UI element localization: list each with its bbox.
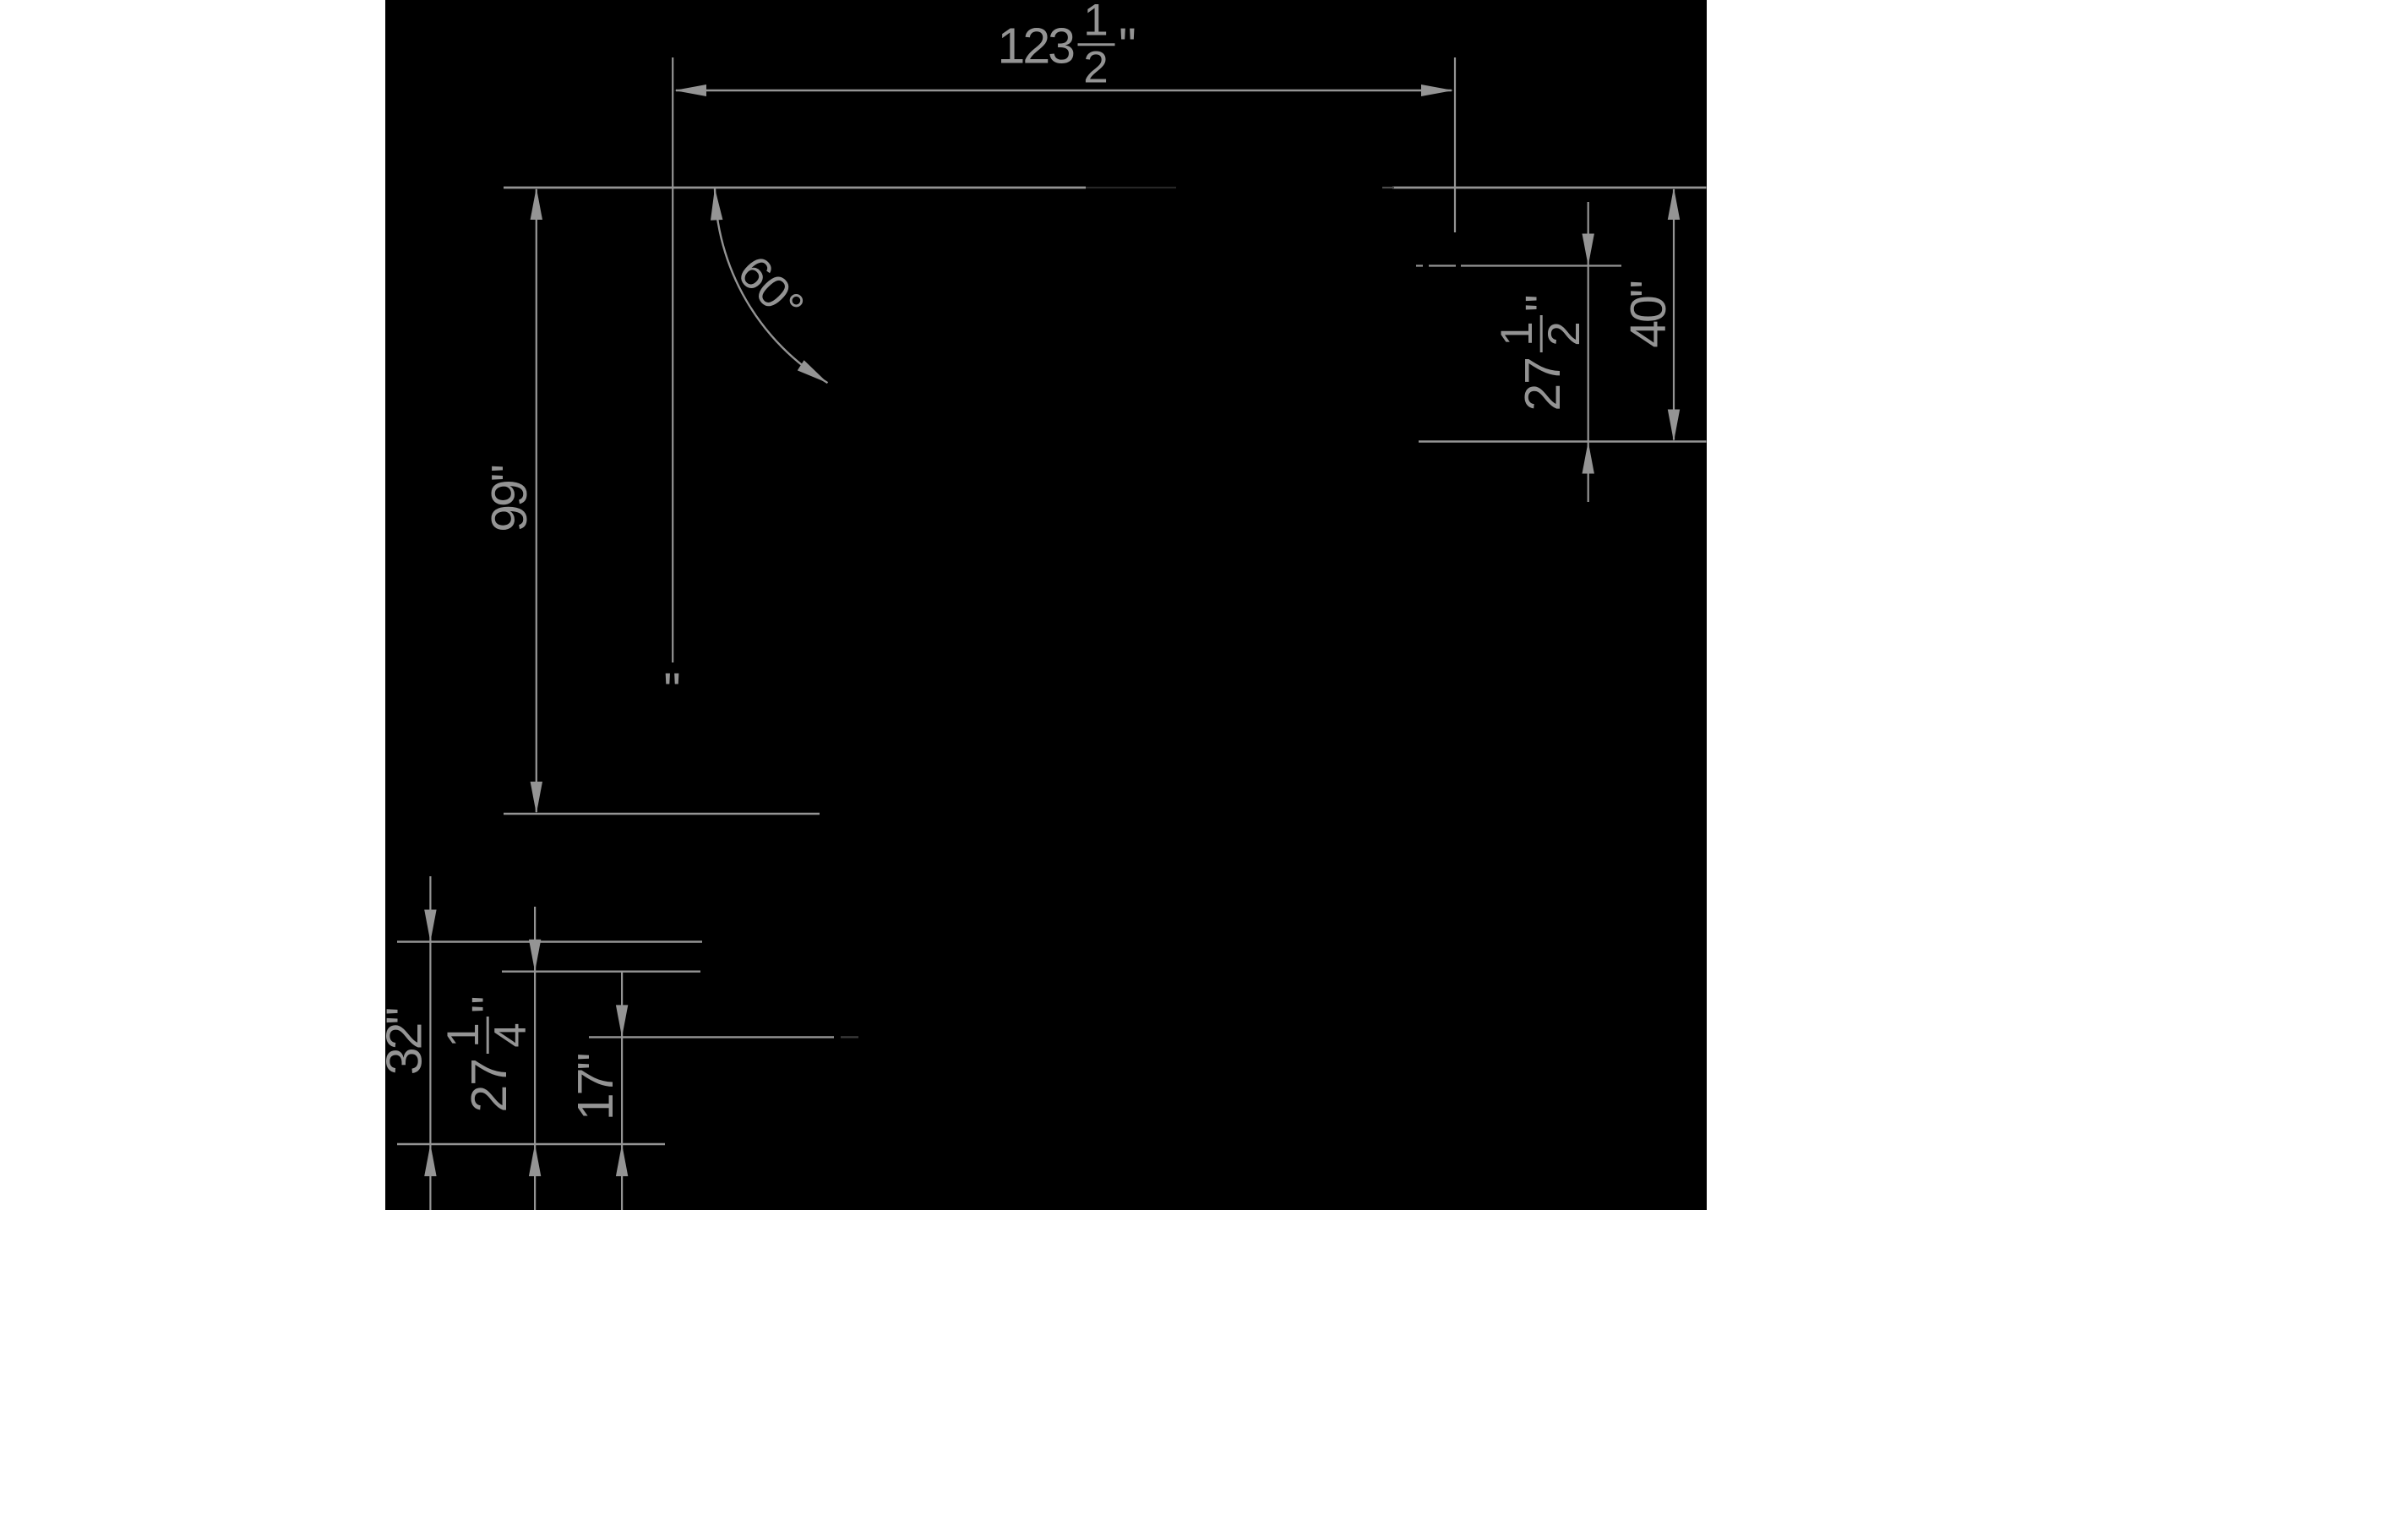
svg-text:1: 1 [1083, 0, 1108, 46]
svg-text:123: 123 [998, 19, 1075, 74]
svg-text:2: 2 [1539, 321, 1589, 346]
svg-text:40": 40" [1621, 281, 1676, 348]
svg-text:27: 27 [461, 1059, 517, 1113]
svg-text:2: 2 [1083, 43, 1108, 93]
svg-text:": " [663, 663, 681, 718]
svg-text:32": 32" [385, 1009, 433, 1076]
svg-text:": " [1516, 294, 1571, 312]
svg-text:4: 4 [486, 1022, 536, 1047]
svg-text:99": 99" [482, 466, 537, 532]
svg-text:": " [462, 995, 517, 1013]
svg-text:1: 1 [439, 1022, 488, 1047]
svg-text:27: 27 [1515, 357, 1571, 412]
svg-text:60°: 60° [727, 245, 814, 332]
svg-text:17": 17" [568, 1055, 624, 1121]
svg-text:": " [1119, 19, 1136, 74]
svg-text:1: 1 [1492, 321, 1542, 346]
